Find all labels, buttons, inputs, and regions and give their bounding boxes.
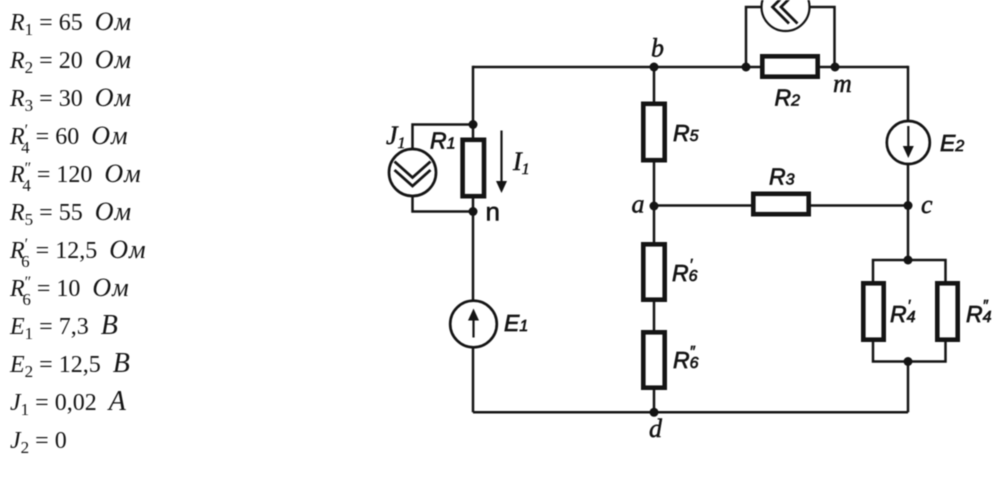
junction dot R4 parallel top: [904, 256, 913, 265]
node m junction dot: [831, 63, 840, 72]
wire from R4 bottom rail down to bottom rail: [907, 362, 910, 413]
node b junction dot: [650, 63, 659, 72]
wire middle vertical R5 to node a: [653, 163, 656, 207]
svg-text:n: n: [486, 197, 500, 227]
wire middle vertical node a to R6': [653, 206, 656, 242]
wire top rail from node b to R2 left junction: [654, 66, 760, 69]
voltage source E1: [450, 301, 497, 348]
junction dot R2 left: [742, 63, 751, 72]
voltage source E2: [887, 121, 930, 164]
wire top rail from R2 right to top-right corner: [820, 66, 908, 69]
svg-text:R4″: R4″: [966, 297, 992, 327]
svg-text:b: b: [651, 34, 664, 63]
node a junction dot: [650, 202, 659, 211]
svg-text:m: m: [833, 69, 852, 98]
wire R4 parallel block frame: top rail: [873, 260, 946, 281]
svg-text:R6″: R6″: [673, 343, 699, 373]
wire between R6' and R6'': [653, 302, 656, 330]
wire left vertical node n to R1: [472, 198, 475, 212]
wire R4 parallel block frame: bottom rail: [873, 342, 946, 362]
resistor R1: [463, 140, 484, 196]
wire node a to R3: [654, 204, 751, 207]
resistor R6'': [643, 332, 664, 387]
wire J2 branch left vertical and top: [746, 7, 786, 67]
resistor R4': [863, 283, 883, 339]
current arrow I1: [496, 131, 507, 194]
resistor R4'': [937, 283, 957, 339]
node d junction dot: [650, 408, 659, 417]
resistor R3: [753, 194, 808, 214]
wire J1 branch top horizontal: [413, 125, 474, 150]
wire J1 branch bottom horizontal: [413, 196, 474, 212]
wire R6'' to node d: [653, 390, 656, 413]
svg-text:J2 = 0: J2 = 0: [10, 428, 67, 457]
resistor R2: [762, 56, 817, 76]
junction dot R4 parallel bottom: [904, 357, 913, 366]
node c junction dot: [904, 201, 913, 210]
svg-text:c: c: [921, 190, 933, 219]
wire from E2 down to node c: [907, 164, 910, 206]
svg-text:d: d: [649, 414, 663, 443]
wire left vertical E1 top to node n: [472, 212, 475, 302]
wire left vertical R1 top to J1 junction to top rail corner: [472, 66, 475, 138]
svg-text:a: a: [632, 190, 645, 219]
current source J1: [389, 149, 436, 196]
node n junction dot: [469, 207, 478, 216]
wire top rail from left corner to node b: [473, 66, 654, 69]
resistor R5: [643, 104, 664, 160]
resistor R6': [643, 244, 664, 299]
wire middle vertical node b to R5: [653, 67, 656, 102]
junction dot J1 top: [469, 120, 478, 129]
current source J2: [762, 0, 810, 31]
wire R3 to node c: [811, 204, 908, 207]
wire from node c down to R4 parallel top rail: [907, 206, 910, 260]
wire right vertical from corner down to E2: [907, 66, 910, 121]
wire bottom rail: [473, 411, 908, 414]
wire bottom rail to left vertical: [472, 348, 475, 413]
wire J2 branch top and right vertical: [786, 7, 835, 67]
